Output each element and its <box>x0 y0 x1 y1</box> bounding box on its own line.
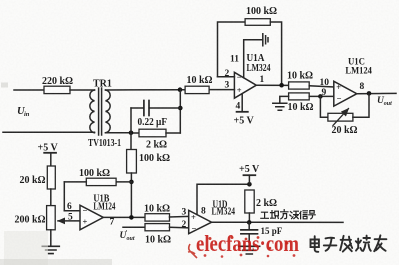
node pin9 junction <box>318 94 323 99</box>
ground (pot 200k) <box>42 246 59 253</box>
ground (U1C pin9 resistor) <box>280 96 289 103</box>
wire U1D output <box>212 221 343 223</box>
wire U1D V+ pin <box>197 184 249 214</box>
wire 20k to pot <box>50 189 52 206</box>
wire U1A output <box>256 84 288 86</box>
capacitor 0.22uF <box>131 107 144 109</box>
wire U1B output <box>103 216 145 218</box>
pot 200k wiper arrow <box>58 220 80 222</box>
resistor 10k to U1D pin3 <box>145 214 170 221</box>
wire to transformer primary <box>70 89 95 91</box>
node U'out stub <box>123 226 145 228</box>
wire vertical cap branch <box>179 90 181 133</box>
potentiometer 20k <box>320 96 328 117</box>
watermark dots <box>209 236 289 249</box>
resistor 100k vertical <box>127 150 137 174</box>
resistor 100k U1B feedback <box>116 181 131 183</box>
wire pin3 <box>209 89 234 91</box>
wire feedback right vertical <box>270 22 281 85</box>
power +5V (U1D) <box>248 175 250 184</box>
wire U1C output <box>357 92 396 94</box>
wire feedback to pin6 <box>63 182 65 211</box>
wire secondary top <box>106 89 186 91</box>
wire cap-left vertical <box>130 108 132 150</box>
node +5V junction <box>247 182 252 187</box>
wire feedback left vertical <box>218 22 246 77</box>
resistor 2k (parallel) <box>131 132 139 134</box>
scan artifact bottom-left shading <box>4 231 48 265</box>
watermark red squiggle <box>188 244 197 258</box>
node U1B feedback junction <box>129 180 134 185</box>
wire pin2 <box>218 76 235 78</box>
label square wave signal 工频方波信号 <box>261 210 315 219</box>
node secondary top junction <box>178 87 183 92</box>
resistor 20k <box>47 166 55 189</box>
resistor 2k pullup <box>245 190 254 213</box>
watermark 电子发烧友 <box>311 235 387 251</box>
node U1A output junction <box>279 83 284 88</box>
node U1B output junction <box>129 215 134 220</box>
resistor 220k <box>44 86 70 93</box>
ground (under 15pF) <box>248 234 250 247</box>
wire secondary bottom <box>106 132 132 134</box>
wire pin11 to ground <box>244 40 262 78</box>
node U1C output junction <box>367 91 372 96</box>
resistor 10k (to U1C pin10) <box>289 82 310 89</box>
op-amp U1B <box>80 205 103 230</box>
wire input top <box>14 89 44 91</box>
wire pot to ground <box>50 230 52 246</box>
capacitor 15pF <box>248 222 250 229</box>
node output junction <box>247 220 252 225</box>
op-amp U1D <box>189 210 212 233</box>
node cap right junction <box>178 106 183 111</box>
op-amp U1A <box>234 72 256 98</box>
potentiometer 200k <box>47 206 56 230</box>
node transformer bottom junction <box>129 131 134 136</box>
resistor 10k (to U1C pin9) <box>289 93 310 100</box>
resistor 10k (U1A input) <box>185 86 209 93</box>
wire input bottom <box>3 131 95 133</box>
resistor 10k to U1D pin2 <box>145 224 170 231</box>
wire 100k down to feedback node <box>130 173 132 217</box>
pin 4 wire and +5V <box>241 94 243 112</box>
transformer TR1 <box>90 88 110 135</box>
resistor 100k (U1A feedback) <box>245 19 270 26</box>
ground (pin 11, sideways) <box>263 34 268 46</box>
op-amp U1C <box>334 81 357 106</box>
